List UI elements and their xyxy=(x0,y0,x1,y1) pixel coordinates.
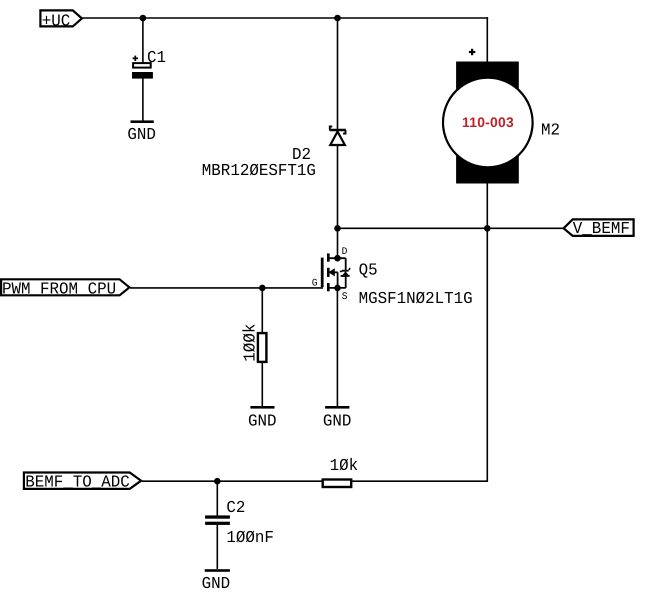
svg-text:110-003: 110-003 xyxy=(462,114,514,130)
svg-text:MGSF1NØ2LT1G: MGSF1NØ2LT1G xyxy=(359,289,473,308)
svg-text:+UC: +UC xyxy=(42,12,71,31)
svg-text:M2: M2 xyxy=(541,121,560,140)
svg-text:GND: GND xyxy=(248,412,277,431)
svg-text:BEMF_TO_ADC: BEMF_TO_ADC xyxy=(25,473,130,492)
svg-text:G: G xyxy=(312,277,318,289)
svg-text:1ØØk: 1ØØk xyxy=(241,324,260,362)
svg-text:PWM_FROM_CPU: PWM_FROM_CPU xyxy=(2,280,116,299)
svg-text:Q5: Q5 xyxy=(359,261,378,280)
svg-text:GND: GND xyxy=(127,125,156,144)
svg-text:GND: GND xyxy=(323,412,352,431)
svg-text:D: D xyxy=(342,246,348,258)
svg-text:GND: GND xyxy=(202,574,231,593)
svg-text:1ØØnF: 1ØØnF xyxy=(226,528,274,547)
svg-text:1Øk: 1Øk xyxy=(330,456,359,475)
svg-text:MBR12ØESFT1G: MBR12ØESFT1G xyxy=(202,161,316,180)
svg-text:C1: C1 xyxy=(147,48,166,67)
svg-text:S: S xyxy=(342,291,348,303)
svg-text:V_BEMF: V_BEMF xyxy=(573,219,630,238)
svg-text:C2: C2 xyxy=(226,498,245,517)
